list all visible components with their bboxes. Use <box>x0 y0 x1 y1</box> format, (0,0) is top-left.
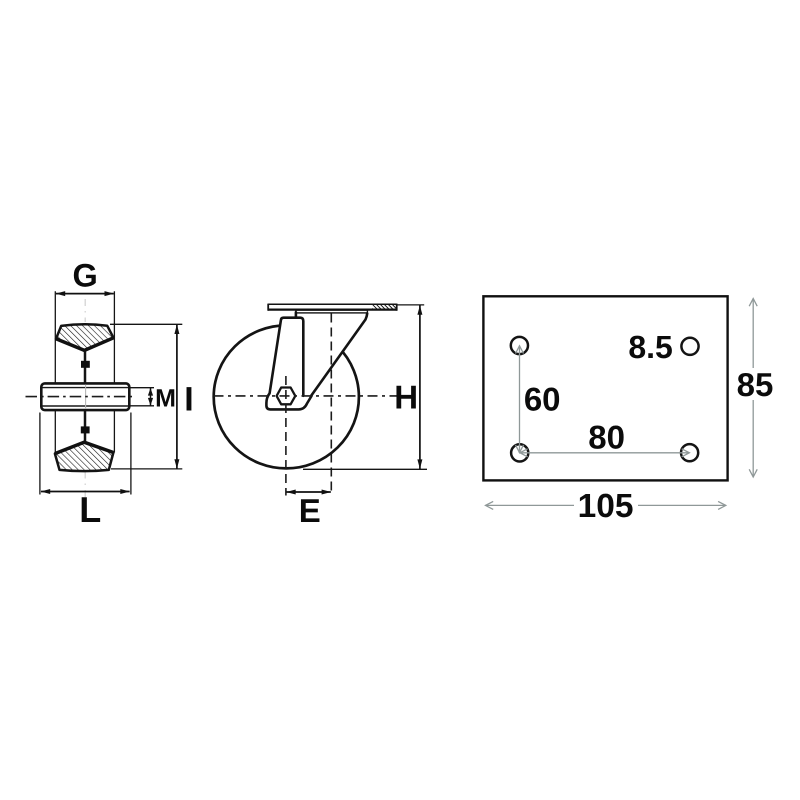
top key square <box>81 361 90 368</box>
svg-text:L: L <box>79 489 101 530</box>
dimension L arrow right <box>120 489 130 494</box>
G extension line right <box>113 291 115 452</box>
top plate <box>268 304 397 311</box>
dimension I arrow down <box>174 459 179 469</box>
hole top-left <box>511 337 528 354</box>
svg-text:E: E <box>299 492 321 529</box>
top spoke stem <box>84 350 87 384</box>
hub tube <box>41 383 129 410</box>
svg-text:M: M <box>155 385 176 413</box>
plate outline <box>483 296 727 480</box>
swivel housing <box>296 310 368 313</box>
hole bottom-left <box>511 444 528 461</box>
dimension G arrow right <box>105 291 115 296</box>
M extension line bottom <box>130 405 154 407</box>
wheel axis vertical dashed <box>285 376 287 496</box>
wheel circle <box>214 325 359 468</box>
dimension H arrow up <box>417 305 422 315</box>
L extension line left <box>39 413 41 495</box>
G extension line left <box>54 291 56 453</box>
L extension line right <box>130 413 132 495</box>
dimension 60 line <box>516 346 524 453</box>
svg-text:60: 60 <box>524 381 561 418</box>
hole top-right <box>681 338 698 355</box>
svg-text:105: 105 <box>578 488 634 525</box>
tire bottom (hatched) <box>55 442 114 471</box>
svg-text:H: H <box>394 378 418 415</box>
dimension I arrow up <box>174 324 179 334</box>
dimension L line <box>41 491 130 493</box>
dimension E arrow left <box>286 490 296 495</box>
dimension I line <box>176 325 178 469</box>
dimension 85 line <box>749 299 757 478</box>
horizontal dash-dot centerline <box>214 395 398 397</box>
I extension line bottom <box>111 468 182 470</box>
axle dash-dot centerline <box>26 396 133 398</box>
H extension line top <box>397 304 424 306</box>
dimension M line and arrows <box>148 388 153 406</box>
dimension H line <box>419 305 421 469</box>
M extension line top <box>130 387 154 389</box>
fork back leg fill <box>303 312 367 397</box>
I extension line top <box>110 323 182 325</box>
svg-text:I: I <box>184 380 193 418</box>
svg-text:80: 80 <box>588 419 625 456</box>
label 85 <box>733 366 777 403</box>
hole bottom-right <box>681 444 698 461</box>
label 105 <box>574 488 638 525</box>
label 60 <box>521 381 563 418</box>
faint vertical centerline above tire <box>84 299 86 322</box>
swivel axis vertical dashed <box>330 314 332 496</box>
dimension E arrow right <box>322 490 332 495</box>
dimension L arrow left <box>41 489 51 494</box>
dimension G line <box>56 293 114 295</box>
faint vertical centerline below tire <box>84 472 86 498</box>
dimension E line <box>287 491 331 493</box>
dimension H arrow down <box>417 459 422 469</box>
bottom key square <box>81 426 90 433</box>
fork front leg outline <box>266 312 311 409</box>
svg-text:8.5: 8.5 <box>628 329 672 365</box>
svg-text:85: 85 <box>737 366 774 403</box>
dimension 105 line <box>486 501 726 509</box>
fork front leg fill <box>266 318 311 410</box>
tire top (hatched) <box>56 324 114 350</box>
H extension line bottom <box>303 468 427 470</box>
faint vertical centerline through hub <box>85 385 87 410</box>
label 80 <box>585 419 628 456</box>
dimension 80 line <box>520 449 690 457</box>
fork back leg diagonal <box>312 313 368 395</box>
bottom spoke stem <box>84 410 87 444</box>
dimension G arrow left <box>56 291 66 296</box>
svg-text:G: G <box>73 258 98 294</box>
axle hex nut <box>277 388 296 405</box>
